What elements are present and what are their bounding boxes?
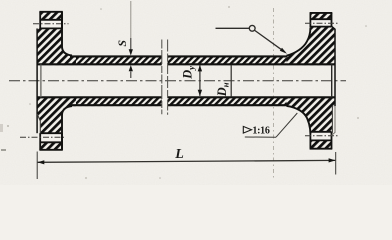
bottom pipe wall right segment fill [168, 97, 335, 107]
scan speckles [7, 6, 367, 179]
raised face edge seen through bore (right flange) [331, 64, 333, 97]
svg-text:1:16: 1:16 [252, 125, 269, 136]
top wall outer edge [70, 55, 162, 57]
pipe wall edge lines [37, 56, 335, 105]
right lower bolt hole axis [305, 135, 339, 137]
faint vertical crease dash-dot line [273, 8, 275, 180]
left upper bolt hole axis [33, 23, 69, 25]
left flange outline [37, 12, 72, 150]
L dimension [37, 147, 336, 179]
bottom pipe wall left segment fill [37, 97, 162, 107]
paper grain [0, 0, 392, 185]
right flange lower face step edge [331, 106, 333, 133]
right flange upper body fill [287, 13, 336, 65]
right upper bolt hole axis [305, 22, 339, 24]
left flange lower bolt hole [20, 133, 66, 150]
svg-text:L: L [174, 147, 184, 162]
weld leader with circle [216, 25, 288, 53]
S dimension [115, 1, 133, 78]
right flange face line lower faint part [332, 106, 336, 135]
right flange outline [287, 13, 336, 149]
svg-text:S: S [115, 40, 129, 47]
Dy dimension [181, 65, 203, 96]
bottom wall inner (bore) edge [37, 96, 162, 98]
left flange upper bolt hole [33, 12, 69, 29]
left lower bolt hole axis [20, 136, 66, 138]
top wall inner (bore) edge [37, 63, 162, 65]
pipe break lines [162, 40, 168, 115]
top pipe wall left segment fill [37, 56, 162, 66]
taper 1:16 callout [243, 113, 297, 137]
right flange upper bolt hole [305, 13, 339, 28]
paper background [0, 0, 392, 185]
right flange lower body fill [287, 97, 336, 149]
left flange upper body fill [37, 12, 76, 65]
left flange lower face chamfer [37, 114, 40, 133]
horizontal centerline [9, 80, 346, 82]
Dn dimension [215, 65, 231, 97]
top pipe wall right segment fill [168, 56, 335, 66]
bottom wall outer edge [70, 104, 162, 106]
left flange lower body fill [37, 97, 76, 150]
right flange lower bolt hole [305, 132, 339, 149]
raised face edge seen through bore (left flange) [40, 64, 42, 97]
scan smudge bottom-left [1, 149, 6, 151]
